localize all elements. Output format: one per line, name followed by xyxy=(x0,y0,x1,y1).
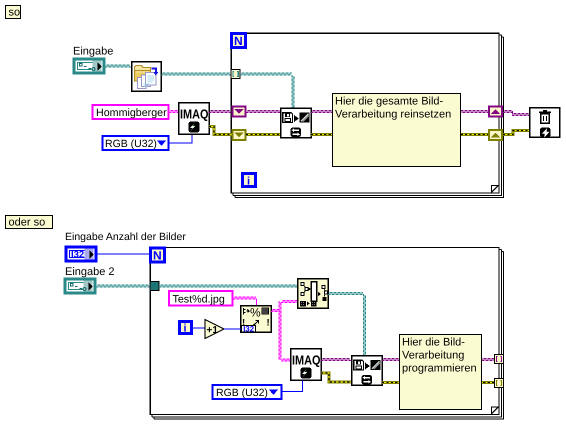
node IMAQ dispose (trash) xyxy=(530,108,560,138)
node increment +1 xyxy=(205,320,224,339)
node IMAQ Create 2 xyxy=(291,349,322,381)
wire IMAQ2 to save2 (purple) xyxy=(321,359,351,361)
wire left SR to save node (olive) xyxy=(246,133,281,136)
I32 control xyxy=(66,247,96,261)
wire Hommigberger to IMAQ1 (magenta) xyxy=(169,111,178,113)
wire i to +1 (blue) xyxy=(193,327,205,329)
node IMAQ Create 1 xyxy=(179,103,210,135)
node list-folder VI xyxy=(132,62,162,92)
loop2 output tunnel olive [] xyxy=(495,379,504,388)
svg-text:+1: +1 xyxy=(207,325,219,336)
comment box 2 xyxy=(400,335,482,410)
iteration terminal i (loop2) xyxy=(180,322,192,335)
string constant Hommigberger xyxy=(93,105,169,119)
enum constant RGB (U32) 2 xyxy=(213,385,282,399)
left shift register olive (loop1) xyxy=(233,130,246,140)
left shift register purple (loop1) xyxy=(233,107,246,117)
wire +1 to format node (blue) xyxy=(224,328,241,330)
string constant Test%d.jpg xyxy=(169,291,233,306)
for-loop 1 frame xyxy=(231,33,503,197)
svg-text:N: N xyxy=(234,34,243,48)
svg-text:I32: I32 xyxy=(243,325,255,334)
svg-text:RGB (U32): RGB (U32) xyxy=(216,387,268,399)
svg-text:i: i xyxy=(247,176,250,188)
node format-into-string xyxy=(241,306,272,334)
wire build-path to save2 (teal) xyxy=(328,293,363,295)
svg-text:i: i xyxy=(184,323,187,335)
loop 1 iteration terminal i xyxy=(243,174,256,188)
svg-text:Hier die Bild-: Hier die Bild- xyxy=(402,337,465,349)
wire IMAQ2 to save2 (olive) xyxy=(321,373,351,382)
label "oder so" xyxy=(6,216,53,229)
svg-text:Verarbeitung reinsetzen: Verarbeitung reinsetzen xyxy=(335,109,451,121)
magenta net: format out to build-path and IMAQ2 xyxy=(271,310,280,312)
wire path Eingabe to list-folder (teal) xyxy=(105,65,131,67)
svg-text:so: so xyxy=(9,7,21,19)
wire save1 to right SR (purple) xyxy=(311,111,488,113)
comment box 1 xyxy=(333,94,461,167)
svg-text:%: % xyxy=(250,306,261,320)
svg-text:Eingabe Anzahl der Bilder: Eingabe Anzahl der Bilder xyxy=(65,231,186,243)
right shift register purple (loop1) xyxy=(489,107,502,117)
wire IMAQ1 error to left shift register (olive) xyxy=(209,127,232,135)
loop2 output tunnel purple [] xyxy=(495,355,504,364)
node IMAQ write-file 1 xyxy=(281,108,311,137)
svg-text:N: N xyxy=(153,249,162,263)
wire tunnel to save node 1 (teal) xyxy=(240,73,292,75)
svg-text:IMAQ: IMAQ xyxy=(180,107,209,122)
svg-text:Hommigberger: Hommigberger xyxy=(96,107,167,119)
wire right SR purple to dispose node xyxy=(503,111,512,113)
svg-text:I32: I32 xyxy=(71,250,84,261)
for-loop 2 frame xyxy=(150,248,503,420)
path control Eingabe 2 xyxy=(65,279,95,293)
svg-text:Hier die gesamte Bild-: Hier die gesamte Bild- xyxy=(335,96,444,108)
wire tunnel to build-path node (teal) xyxy=(159,285,298,287)
enum constant RGB (U32) 1 xyxy=(103,136,169,150)
svg-text:Eingabe 2: Eingabe 2 xyxy=(65,266,115,278)
label "so" xyxy=(6,6,21,19)
wire save2 to output tunnel (olive) xyxy=(382,381,495,384)
loop 2 count terminal N xyxy=(151,248,165,263)
wire Eingabe2 to loop2 tunnel (teal) xyxy=(96,285,150,287)
right shift register olive (loop1) xyxy=(489,130,502,140)
svg-text:Test%d.jpg: Test%d.jpg xyxy=(173,294,225,306)
svg-text:!: ! xyxy=(267,318,270,329)
wire Test%d.jpg to format node (magenta) xyxy=(233,297,256,299)
svg-text:oder so: oder so xyxy=(9,217,46,229)
wire save2 to output tunnel (purple) xyxy=(382,359,495,361)
node build-path xyxy=(298,279,329,309)
svg-text:programmieren: programmieren xyxy=(402,363,477,375)
path control Eingabe xyxy=(74,59,104,73)
loop 2 input tunnel (solid teal) xyxy=(150,282,159,291)
svg-text:Verarbeitung: Verarbeitung xyxy=(402,350,464,362)
svg-text:Eingabe: Eingabe xyxy=(73,46,113,58)
wire RGB2 to IMAQ2 (blue) xyxy=(282,381,303,392)
wire IMAQ1 to left shift register (purple) xyxy=(209,111,231,113)
wire RGB1 to IMAQ1 (blue) xyxy=(169,135,192,143)
svg-text:RGB (U32): RGB (U32) xyxy=(105,138,157,150)
wire folder to loop1 tunnel (teal) xyxy=(161,73,231,75)
loop 1 count terminal N xyxy=(232,34,246,49)
svg-text:IMAQ: IMAQ xyxy=(292,353,321,368)
wire left SR to save node (purple) xyxy=(246,111,281,113)
loop 1 auto-index tunnel [] (teal) xyxy=(231,70,240,79)
wire right SR olive to dispose node xyxy=(503,131,529,135)
wire save1 to right SR (olive) xyxy=(311,133,488,136)
wire I32 to N2 (blue) xyxy=(97,253,150,255)
node IMAQ write-file 2 xyxy=(352,356,382,385)
